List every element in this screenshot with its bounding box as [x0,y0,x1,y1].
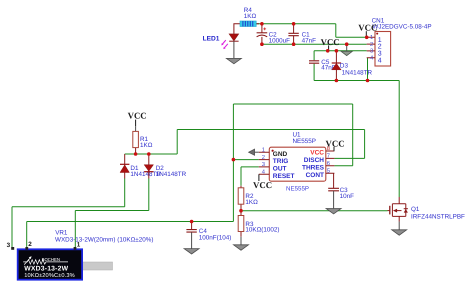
transistor Q1 [388,197,466,222]
svg-text:LED1: LED1 [203,35,220,42]
svg-text:1KΩ: 1KΩ [244,13,257,20]
node C4 top [190,220,194,224]
node ground stem pin2 [345,42,349,46]
node pin4 wire joins bottom rail [366,79,370,83]
wire THRES/TRIG upper run [233,104,352,166]
ground under C3 [326,209,341,214]
svg-text:VCC: VCC [358,23,377,33]
svg-text:RESET: RESET [273,173,295,180]
svg-text:2: 2 [262,154,265,161]
svg-text:2: 2 [370,41,373,48]
node C1 top [292,22,296,26]
svg-text:1: 1 [262,147,265,153]
resistor R1 [133,126,153,154]
svg-text:VR1: VR1 [55,229,68,236]
resistor R3 [238,211,279,237]
power flag VCC at CN1 pin1 [358,23,377,38]
node TRIG junction [232,158,236,162]
node VCC stem pin3 wire [326,49,330,53]
power flag VCC at U1 pin8 [326,138,345,151]
power flag VCC at U1 RESET [253,174,272,190]
capacitor C4 [186,222,231,249]
svg-text:CONT: CONT [306,172,324,179]
svg-text:D3: D3 [340,62,349,69]
wire TRIG stub [233,159,258,161]
svg-text:VCC: VCC [310,150,324,157]
diode D2 [144,154,187,179]
node R2/R3 gate junction [239,209,243,213]
potentiometer VR1 [7,229,154,279]
svg-text:1000uF: 1000uF [269,38,291,45]
ground arrow at U1 pin1 [249,149,259,155]
svg-text:1N4148TR: 1N4148TR [156,171,187,178]
wire D1 to pot pin3 [12,179,125,249]
node D2 top [147,152,151,156]
resistor R4 [234,7,259,34]
ground under Q1 [392,222,407,236]
svg-text:DISCH: DISCH [304,157,325,164]
wire GND rail (C2/C1 bottoms to CN1 pin2) [262,43,367,45]
capacitor C5 [309,59,336,72]
svg-text:WXD3-13-2W: WXD3-13-2W [24,266,68,273]
capacitor C2 [257,24,291,45]
LED LED1 [203,34,239,49]
power flag VCC near C5 [321,37,340,51]
svg-text:3: 3 [262,161,265,168]
svg-text:1: 1 [370,35,373,41]
svg-text:6: 6 [327,160,330,167]
svg-text:TRIG: TRIG [273,158,289,165]
svg-text:3: 3 [370,48,373,55]
wire OUT to R2 [241,167,259,186]
node R1 bottom [134,152,138,156]
ground under R3 [234,237,249,250]
wire D3/C5 bottom to Q1 drain [314,81,399,198]
diode D1 [120,154,161,179]
svg-text:7: 7 [327,154,330,160]
svg-text:1N4148TR: 1N4148TR [342,70,373,77]
ground at CN1 pin2 [341,44,352,55]
svg-text:NE555P: NE555P [286,186,309,193]
svg-text:VCC: VCC [326,138,345,148]
svg-text:VCC: VCC [128,110,147,120]
connector CN1 [367,18,432,66]
svg-text:10KΩ(1002): 10KΩ(1002) [245,226,279,233]
wire VCC to CN1 pin3 through C5/D3 tops [314,50,367,52]
node C2 bottom [260,42,264,46]
resistor R2 [238,186,258,211]
svg-text:3: 3 [7,242,11,249]
svg-text:4: 4 [378,57,382,64]
wire C5 branch [313,51,315,81]
ground under LED1 [226,41,241,64]
svg-text:WJ2EDGVC-5.08-4P: WJ2EDGVC-5.08-4P [372,24,431,31]
svg-text:100nF(104): 100nF(104) [199,234,232,241]
wire DISCH run [125,130,365,159]
wire top VCC rail [256,24,367,38]
svg-text:10nF: 10nF [340,193,355,200]
svg-text:10KΩ±20%C±0.3%: 10KΩ±20%C±0.3% [24,273,74,279]
svg-text:WXD3-13-2W(20mm) (10KΩ±20%): WXD3-13-2W(20mm) (10KΩ±20%) [55,236,153,243]
svg-text:47nF: 47nF [302,38,317,45]
svg-text:5: 5 [327,168,330,174]
svg-text:VCC: VCC [321,37,340,47]
svg-text:2: 2 [28,241,32,248]
svg-text:NE555P: NE555P [293,138,316,145]
svg-text:IRFZ44NSTRLPBF: IRFZ44NSTRLPBF [411,213,465,220]
svg-text:1KΩ: 1KΩ [140,142,153,149]
power flag VCC above R1 [128,110,147,126]
svg-text:Q1: Q1 [411,206,420,213]
op-amp U1 NE555P [259,132,335,193]
diode D3 [332,51,373,81]
node CN1 pin1 VCC [365,36,369,40]
svg-text:GND: GND [273,151,288,158]
node C2 top [260,22,264,26]
capacitor C3 [328,173,354,208]
wire D2 to pot pin1 [75,179,149,249]
svg-text:THRES: THRES [302,164,325,171]
wire TRIG vertical [232,104,234,222]
ground under C4 [184,249,199,254]
node D3 bottom [335,79,339,83]
svg-text:1KΩ: 1KΩ [245,199,258,206]
svg-text:BOCHEN: BOCHEN [42,257,60,262]
wire CN1 pin4 down [367,58,369,81]
svg-text:VCC: VCC [253,180,272,190]
svg-text:OUT: OUT [273,166,287,173]
wire gate run R2/R3 to Q1 [241,210,388,212]
wire timing rail to pot pin2 [27,222,234,249]
node D3 top [335,49,339,53]
node C1 bottom [292,42,296,46]
capacitor C1 [288,24,316,45]
